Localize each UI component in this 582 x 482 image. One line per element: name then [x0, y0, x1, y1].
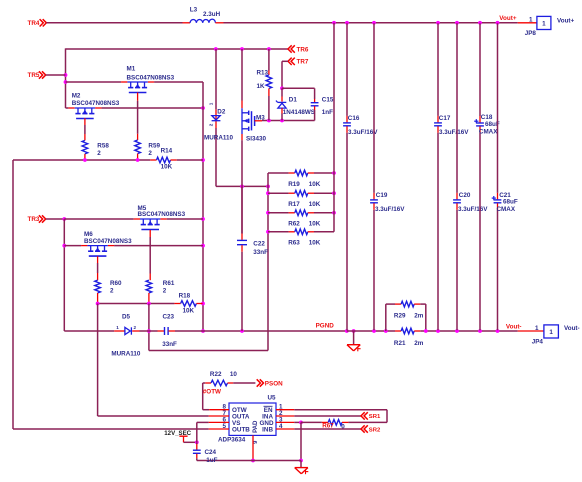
- connector SR2: [361, 425, 381, 433]
- inductor L3: [183, 7, 224, 23]
- ground U5 symbol: [295, 461, 309, 475]
- resistor R60: [95, 280, 122, 304]
- transistor M2: [68, 92, 119, 118]
- svg-text:2: 2: [134, 325, 137, 330]
- wire gate rail y303: [96, 302, 175, 306]
- svg-text:R13: R13: [257, 69, 269, 76]
- wire M3 source lead: [241, 134, 243, 234]
- diode D5: [111, 313, 148, 357]
- svg-text:BSC047N08NS3: BSC047N08NS3: [127, 74, 175, 81]
- svg-text:1: 1: [116, 325, 119, 330]
- svg-text:SR1: SR1: [369, 414, 381, 420]
- svg-text:33nF: 33nF: [253, 249, 268, 256]
- resistor R19: [268, 170, 336, 188]
- svg-text:BSC047N08NS3: BSC047N08NS3: [84, 238, 132, 245]
- transistor M5: [134, 205, 186, 230]
- wire Vout+ top rail: [224, 21, 518, 25]
- resistor R62: [268, 210, 336, 228]
- resistor R61: [146, 280, 175, 304]
- svg-text:D1: D1: [289, 96, 298, 103]
- resistor R17: [268, 190, 336, 208]
- wire bus x334: [333, 23, 335, 232]
- wire JP4 pin stub: [518, 325, 544, 332]
- wire M1 drain rail: [66, 81, 204, 83]
- resistor R13: [257, 49, 272, 121]
- svg-text:C24: C24: [205, 449, 217, 456]
- svg-text:3.3uF/16V: 3.3uF/16V: [375, 206, 405, 213]
- wire PGND rail right: [420, 329, 517, 333]
- svg-text:TR7: TR7: [297, 59, 309, 66]
- svg-text:JP4: JP4: [532, 339, 544, 346]
- svg-text:D5: D5: [122, 313, 131, 320]
- svg-text:MURA110: MURA110: [204, 135, 234, 142]
- wire gate rail y160: [13, 158, 150, 162]
- svg-text:BSC047N08NS3: BSC047N08NS3: [138, 211, 186, 218]
- svg-text:TR5: TR5: [28, 72, 40, 79]
- svg-text:2: 2: [209, 123, 214, 126]
- resistor R29 bypass loop: [386, 301, 426, 331]
- connector TR3: [28, 215, 67, 223]
- resistor R21: [394, 328, 424, 347]
- svg-text:C23: C23: [163, 313, 175, 320]
- svg-text:TR4: TR4: [28, 20, 40, 27]
- wire pin5 OUTB: [13, 428, 229, 430]
- resistor R67: [322, 420, 387, 431]
- wire bank-to-gate jog: [149, 331, 268, 351]
- wire D2 vertical: [215, 49, 217, 186]
- svg-text:R21: R21: [394, 340, 406, 347]
- capacitor C18: [474, 23, 500, 330]
- svg-text:L3: L3: [190, 7, 198, 14]
- svg-text:1: 1: [542, 20, 546, 27]
- svg-text:1: 1: [209, 102, 214, 105]
- svg-text:TR6: TR6: [297, 46, 309, 53]
- svg-text:MURA110: MURA110: [111, 350, 141, 357]
- wire TR5 vertical: [64, 48, 68, 108]
- svg-text:R61: R61: [163, 280, 175, 287]
- svg-text:1K: 1K: [257, 83, 266, 90]
- wire pin7 OUTA: [98, 415, 229, 417]
- resistor R18: [174, 292, 202, 314]
- svg-text:R18: R18: [179, 292, 191, 299]
- wire M2 gate lead: [84, 118, 86, 140]
- svg-text:33nF: 33nF: [162, 341, 177, 348]
- svg-text:R17: R17: [288, 201, 300, 208]
- svg-text:1: 1: [549, 329, 553, 336]
- transistor M6: [81, 231, 132, 256]
- svg-text:10K: 10K: [183, 307, 195, 314]
- wire D1 loop top: [282, 87, 315, 89]
- svg-text:U5: U5: [268, 394, 277, 401]
- svg-text:BSC047N08NS3: BSC047N08NS3: [72, 100, 120, 107]
- connector JP4: [532, 325, 580, 346]
- wire pin4 INB net: [276, 428, 361, 430]
- capacitor C22: [237, 186, 268, 331]
- svg-text:10K: 10K: [309, 181, 321, 188]
- wire pin3 GND net: [276, 421, 322, 425]
- svg-text:1N4148WS: 1N4148WS: [283, 109, 315, 116]
- wire PGND rail left: [64, 330, 114, 332]
- svg-text:R58: R58: [97, 142, 109, 149]
- wire bottom gnd rail: [197, 460, 301, 462]
- label PGND: [316, 322, 335, 329]
- svg-text:2m: 2m: [414, 313, 424, 320]
- wire OUTA vertical: [97, 304, 99, 417]
- svg-text:2m: 2m: [414, 340, 424, 347]
- svg-text:Vout-: Vout-: [564, 325, 580, 332]
- connector SR1: [361, 412, 381, 420]
- capacitor C15: [311, 88, 334, 120]
- svg-text:10K: 10K: [309, 221, 321, 228]
- connector TR4: [28, 19, 47, 27]
- svg-text:Vout+: Vout+: [557, 17, 575, 24]
- svg-text:R62: R62: [288, 221, 300, 228]
- wire M2 drain rail: [66, 106, 205, 110]
- svg-text:M2: M2: [72, 92, 81, 99]
- svg-text:1: 1: [535, 325, 539, 332]
- wire M6 gate lead: [97, 256, 99, 280]
- connector TR5: [28, 71, 66, 79]
- svg-text:SI3430: SI3430: [246, 136, 266, 143]
- svg-text:D2: D2: [217, 109, 226, 116]
- svg-text:R59: R59: [148, 142, 160, 149]
- capacitor C20: [453, 23, 488, 330]
- svg-text:1uF: 1uF: [206, 457, 217, 464]
- wire M3 drain lead: [241, 49, 243, 108]
- connector PSON: [257, 379, 283, 387]
- connector TR6: [288, 45, 309, 53]
- label pin numbers left: [222, 404, 226, 431]
- svg-text:M1: M1: [127, 66, 136, 73]
- svg-text:C16: C16: [348, 115, 360, 122]
- wire PAD pin stub: [251, 435, 255, 462]
- svg-text:R60: R60: [110, 280, 122, 287]
- capacitor C21: [492, 23, 518, 330]
- svg-text:SR2: SR2: [369, 427, 381, 433]
- wire bank left vertical: [266, 173, 270, 351]
- diode D1: [276, 88, 315, 120]
- wire switch-node rail: [66, 47, 289, 51]
- capacitor C23: [149, 313, 203, 348]
- svg-text:68uF: 68uF: [503, 198, 518, 205]
- svg-text:C17: C17: [439, 115, 451, 122]
- svg-text:2: 2: [148, 150, 152, 157]
- svg-text:ADP3634: ADP3634: [218, 437, 246, 444]
- wire PGND rail to R21: [347, 329, 395, 333]
- svg-text:PSON: PSON: [265, 381, 283, 388]
- capacitor C17: [434, 23, 469, 330]
- svg-text:10K: 10K: [309, 240, 321, 247]
- svg-text:C19: C19: [376, 192, 388, 199]
- wire TR3 vertical: [62, 219, 66, 331]
- wire pin6 VS: [197, 421, 229, 423]
- wire pin1 EN net: [276, 410, 387, 423]
- wire left vertical OUTB: [12, 160, 14, 429]
- svg-text:R63: R63: [288, 240, 300, 247]
- svg-text:M6: M6: [84, 231, 93, 238]
- svg-text:9: 9: [253, 440, 259, 444]
- transistor M1: [121, 66, 174, 93]
- resistor R63: [268, 229, 334, 247]
- wire M1 gate lead: [137, 93, 139, 141]
- ground PGND symbol: [347, 331, 361, 351]
- svg-text:2: 2: [97, 150, 101, 157]
- svg-text:R19: R19: [288, 181, 300, 188]
- op-amp U5 ADP3634: [218, 394, 276, 444]
- svg-text:3.3uF/16V: 3.3uF/16V: [439, 129, 469, 136]
- svg-text:1nF: 1nF: [322, 109, 333, 116]
- capacitor C24: [193, 449, 218, 464]
- label Vout- net: [506, 324, 522, 331]
- wire M5 drain rail: [64, 218, 203, 220]
- svg-text:#OTW: #OTW: [203, 389, 221, 396]
- resistor R22: [203, 371, 256, 386]
- svg-text:C22: C22: [253, 240, 265, 247]
- wire GND vertical: [299, 422, 303, 462]
- connector JP8: [525, 16, 575, 37]
- wire rail y186: [216, 185, 270, 189]
- resistor R58: [82, 140, 109, 160]
- wire pin8 OTW stub: [203, 409, 229, 411]
- wire pin2 INA net: [276, 415, 361, 417]
- svg-text:C20: C20: [459, 192, 471, 199]
- svg-text:2: 2: [110, 287, 114, 294]
- svg-text:10K: 10K: [309, 201, 321, 208]
- svg-text:PAD: PAD: [253, 420, 259, 433]
- label pin numbers right: [279, 404, 283, 431]
- svg-text:10K: 10K: [161, 163, 173, 170]
- svg-text:CMAX: CMAX: [497, 206, 516, 213]
- svg-text:Vout+: Vout+: [499, 15, 517, 22]
- svg-text:2.3uH: 2.3uH: [203, 11, 221, 18]
- svg-text:R22: R22: [210, 371, 222, 378]
- transistor M3: [242, 108, 266, 142]
- wire M6 drain rail: [64, 245, 203, 247]
- svg-text:CMAX: CMAX: [479, 128, 498, 135]
- svg-text:3.3uF/16V: 3.3uF/16V: [458, 206, 488, 213]
- svg-text:TR3: TR3: [28, 216, 40, 223]
- capacitor C19: [370, 23, 405, 330]
- svg-text:PGND: PGND: [316, 322, 335, 329]
- svg-text:JP8: JP8: [525, 30, 537, 37]
- resistor R14: [150, 148, 203, 171]
- svg-text:C15: C15: [322, 96, 334, 103]
- power 12V_SEC: [164, 430, 198, 444]
- svg-text:1: 1: [529, 16, 533, 23]
- label Vout+ net: [499, 15, 517, 22]
- wire PGND rail mid: [203, 329, 356, 333]
- svg-text:INB: INB: [262, 427, 273, 434]
- connector TR7: [280, 58, 309, 91]
- capacitor C16: [343, 23, 378, 330]
- svg-text:R29: R29: [394, 313, 406, 320]
- wire VS vertical: [196, 422, 198, 449]
- wire Vin top rail left: [46, 22, 182, 24]
- wire M5 gate lead: [149, 230, 151, 280]
- wire OTW net: [203, 383, 221, 410]
- svg-text:2: 2: [163, 287, 167, 294]
- wire JP8 pin stub: [518, 16, 537, 23]
- svg-text:OUTB: OUTB: [232, 427, 250, 434]
- wire R61 lower lead: [147, 304, 151, 333]
- svg-text:R14: R14: [161, 148, 173, 155]
- svg-text:10: 10: [230, 371, 238, 378]
- svg-text:Vout-: Vout-: [506, 324, 522, 331]
- wire M3 gate row: [262, 119, 315, 123]
- wire right vertical bus x203: [201, 82, 205, 333]
- diode D2: [204, 102, 234, 141]
- resistor R59: [135, 140, 161, 160]
